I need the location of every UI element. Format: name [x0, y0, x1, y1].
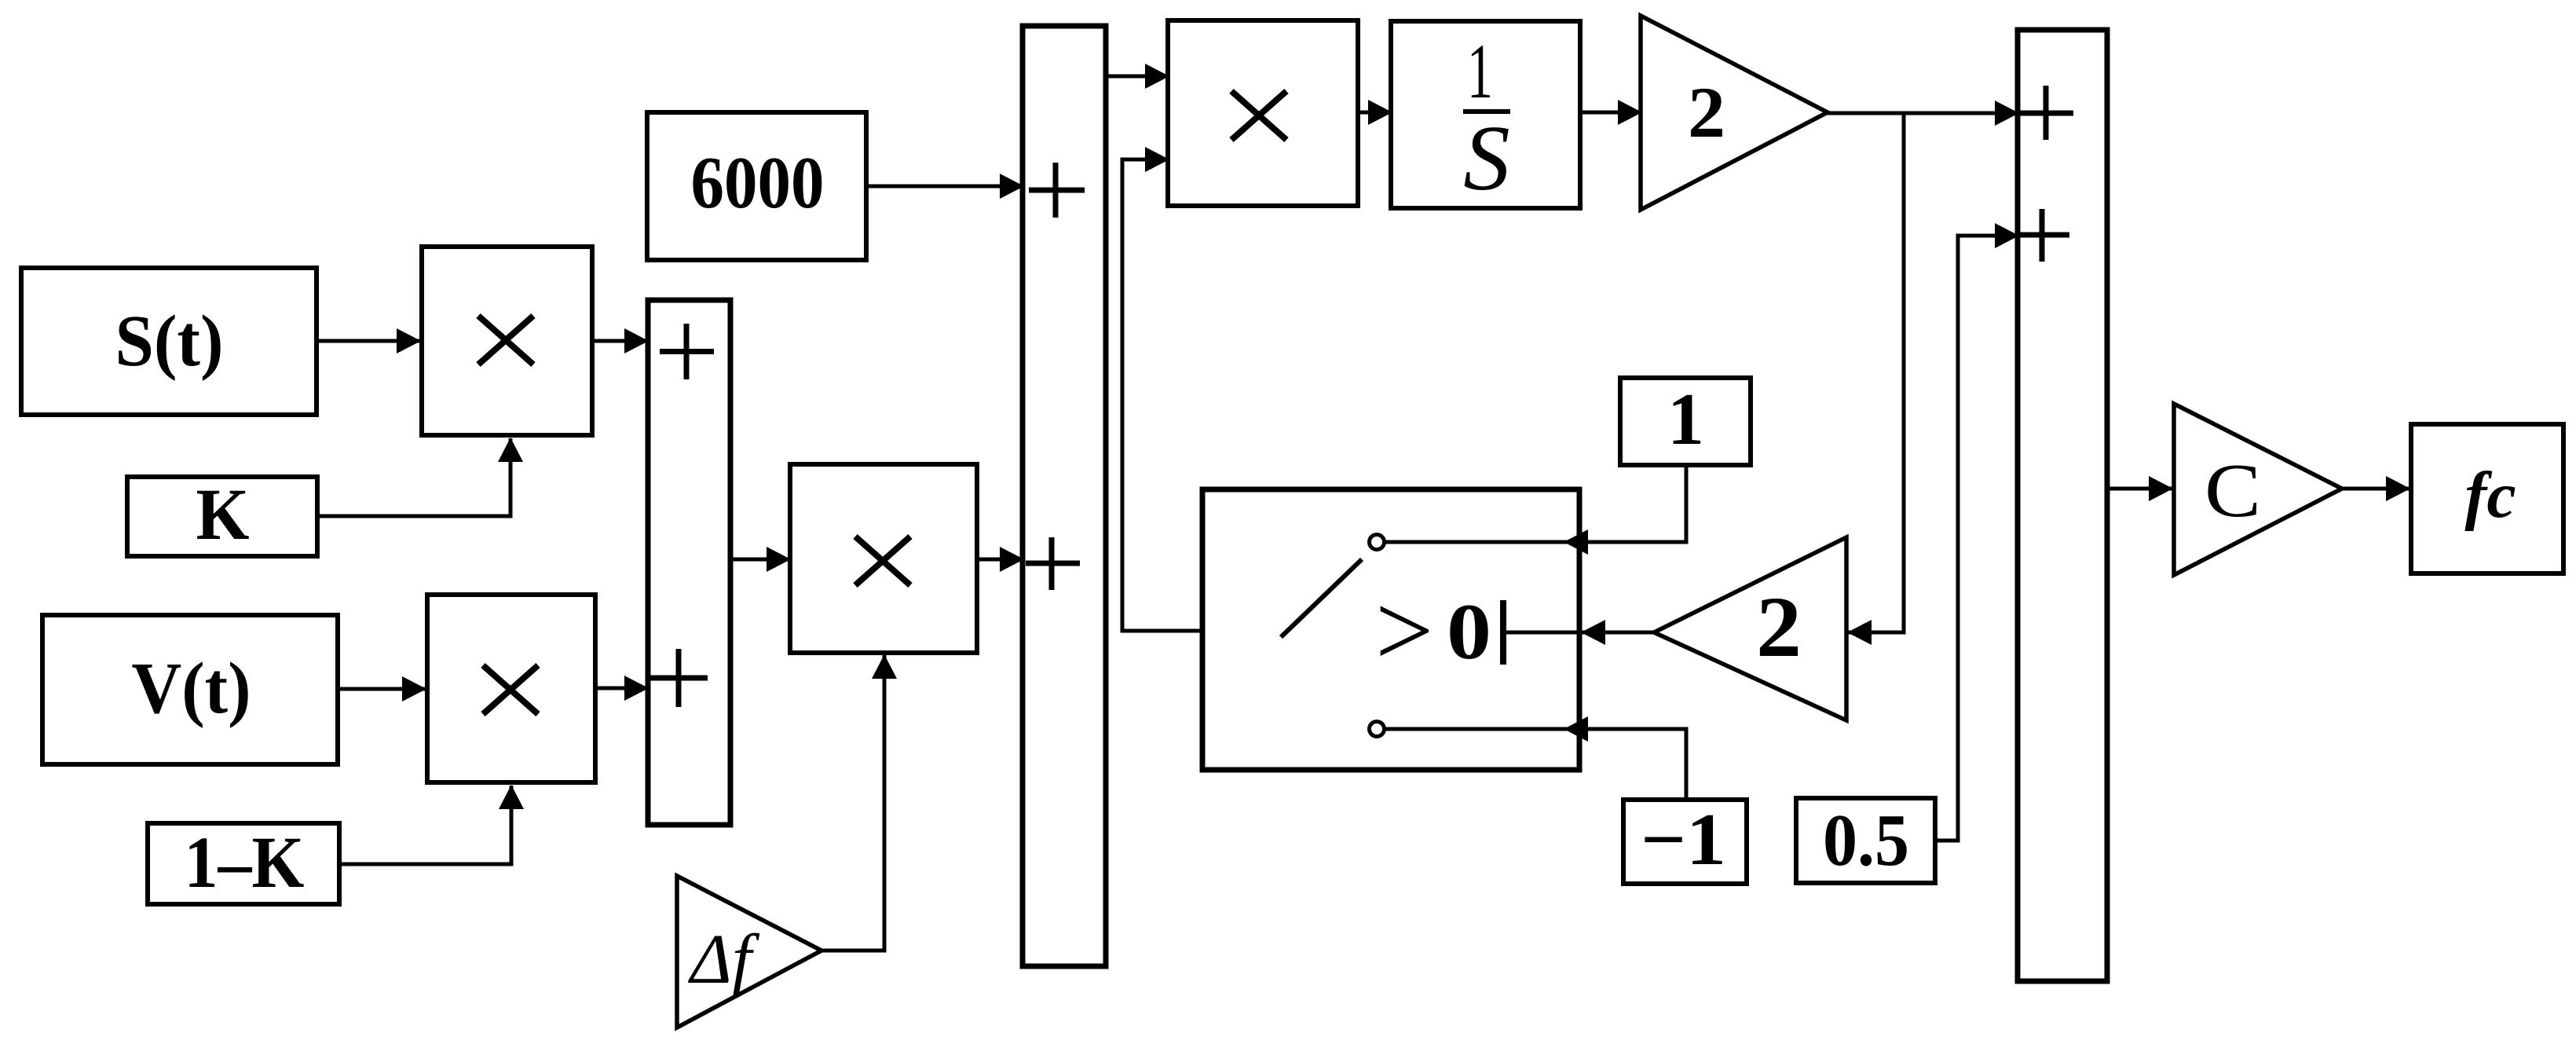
switch contact circle top: [1370, 535, 1385, 550]
wire 1 to switch: [1564, 465, 1686, 542]
svg-text:2: 2: [1688, 72, 1725, 152]
wire gain 2 left to switch: [1582, 631, 1654, 635]
multiplier X4: [1168, 20, 1358, 206]
svg-text:1: 1: [1467, 27, 1493, 115]
svg-text:6000: 6000: [691, 142, 825, 224]
svg-text:V(t): V(t): [132, 648, 251, 729]
svg-text:0: 0: [1447, 588, 1491, 676]
block 6000: [647, 112, 866, 260]
sum block Sum2: [1023, 26, 1106, 966]
switch lever: [1281, 559, 1362, 637]
block 1: [1620, 378, 1751, 465]
svg-text:K: K: [196, 474, 250, 555]
wire K to X1: [317, 438, 510, 516]
multiplier X2: [427, 595, 595, 782]
wire Delta-f to X3: [821, 655, 884, 951]
integrator 1/S: [1391, 21, 1580, 210]
svg-text:−1: −1: [1641, 799, 1726, 881]
switch block: [1202, 489, 1579, 770]
wire gain 2 branch to gain 2 left: [1848, 113, 1904, 632]
block S(t): [21, 268, 317, 415]
multiplier X3: [790, 464, 977, 653]
wire switch feedback to X4: [1122, 159, 1202, 631]
wire Sum3 to C: [2107, 487, 2172, 491]
wire gain 2 to Sum3: [1828, 112, 2018, 115]
wire C to fc: [2342, 487, 2410, 491]
svg-text:S(t): S(t): [115, 301, 224, 382]
svg-text:Δf: Δf: [688, 921, 760, 998]
wire Sum1 to X3: [730, 558, 790, 562]
block fc: [2411, 424, 2563, 573]
wire S(t) to X1: [317, 339, 420, 343]
switch contact circle bottom: [1370, 722, 1385, 737]
wire X2 to Sum1: [595, 687, 648, 691]
block -1: [1623, 799, 1747, 884]
svg-text:2: 2: [1756, 579, 1802, 675]
switch top contact line: [1385, 540, 1579, 544]
svg-text:>: >: [1375, 573, 1433, 688]
svg-text:1–K: 1–K: [185, 822, 305, 903]
wire X3 to Sum2: [977, 558, 1023, 562]
svg-text:0.5: 0.5: [1823, 800, 1909, 881]
block V(t): [42, 615, 338, 764]
wire 0.5 to Sum3: [1935, 236, 2018, 841]
gain triangle C: [2174, 404, 2342, 575]
sum block Sum1: [648, 300, 730, 825]
sum block Sum3: [2018, 30, 2107, 981]
wire 1-K to X2: [339, 786, 511, 864]
wire 6000 to Sum2: [866, 185, 1023, 189]
svg-text:1: 1: [1667, 379, 1704, 460]
svg-text:S: S: [1463, 106, 1510, 210]
svg-text:fc: fc: [2464, 459, 2516, 532]
wire X4 to integrator: [1358, 111, 1392, 115]
switch bottom contact line: [1385, 727, 1579, 731]
wire V(t) to X2: [338, 687, 426, 691]
wire integrator to gain 2: [1580, 111, 1641, 115]
gain triangle Delta-f: [677, 876, 821, 1028]
multiplier X1: [422, 247, 592, 435]
block K: [127, 474, 317, 556]
wire Sum2 to X4: [1106, 75, 1169, 79]
wire X1 to Sum1: [595, 339, 648, 343]
block 0.5: [1796, 798, 1935, 883]
block 1-K: [148, 822, 339, 904]
wire -1 to switch: [1564, 729, 1686, 800]
gain triangle 2 (left-pointing): [1654, 537, 1846, 720]
gain triangle 2 (top): [1641, 16, 1828, 210]
svg-text:C: C: [2205, 449, 2261, 533]
